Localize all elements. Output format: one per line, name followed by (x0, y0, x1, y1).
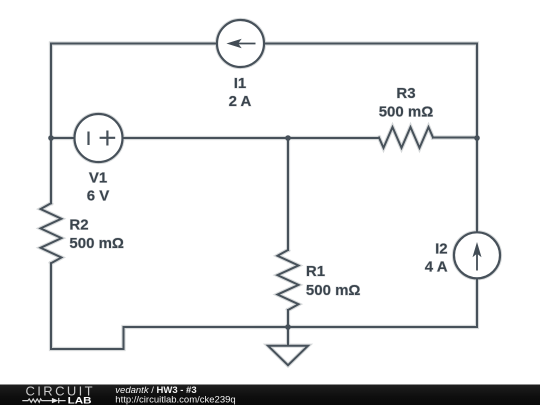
wire left vertical lower + bottom step (51, 263, 288, 349)
wire top left to I1 (51, 43, 217, 45)
voltage source V1 (75, 114, 123, 162)
svg-text:http://circuitlab.com/cke239q: http://circuitlab.com/cke239q (115, 395, 235, 405)
resistor R1 (278, 250, 299, 310)
resistor R3 (379, 127, 433, 148)
resistor R2 (41, 203, 62, 263)
wire left vertical upper (50, 44, 52, 204)
wire I1 to top right corner and down to node (264, 44, 477, 233)
logo diode glyph (52, 398, 59, 403)
svg-text:500 mΩ: 500 mΩ (69, 235, 124, 252)
svg-text:500 mΩ: 500 mΩ (306, 282, 361, 299)
svg-text:2 A: 2 A (229, 93, 252, 110)
svg-text:6 V: 6 V (87, 188, 110, 205)
wire middle node down to R1 (287, 138, 289, 250)
logo resistor glyph (22, 399, 52, 402)
wire R1 to ground node (287, 310, 289, 327)
I2 arrow (473, 242, 482, 271)
svg-text:R2: R2 (69, 216, 88, 233)
wire I2 bottom to bottom-right corner to ground node (288, 278, 477, 327)
svg-text:500 mΩ: 500 mΩ (379, 104, 434, 121)
wire node A to V1 (51, 137, 75, 139)
wire V1 to R3 (123, 137, 380, 139)
node C junction dot (474, 135, 480, 141)
svg-text:R1: R1 (306, 263, 325, 280)
soft halo under-layer for wires (41, 20, 500, 365)
current source I1 (217, 20, 264, 67)
svg-text:V1: V1 (89, 169, 107, 186)
svg-text:4 A: 4 A (425, 259, 448, 276)
I1 arrow (226, 39, 255, 48)
current source I2 (454, 232, 500, 278)
ground node junction dot (285, 324, 291, 330)
V1 polarity marks (89, 131, 116, 146)
node B junction dot (285, 135, 291, 141)
svg-text:I2: I2 (435, 240, 448, 257)
ground (268, 327, 308, 365)
node A junction dot (48, 135, 54, 141)
wire R3 to right node (433, 137, 477, 139)
svg-text:R3: R3 (396, 85, 415, 102)
svg-text:LAB: LAB (68, 396, 92, 405)
svg-text:I1: I1 (234, 75, 247, 92)
